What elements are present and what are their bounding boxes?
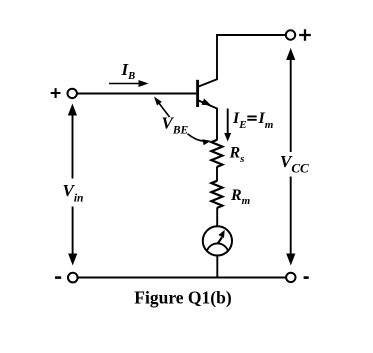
arrow VBE pointer line <box>159 103 170 118</box>
svg-text:Figure Q1(b): Figure Q1(b) <box>134 288 232 308</box>
arrow Vin line lower <box>72 207 74 256</box>
meter M body <box>203 226 232 255</box>
arrow IB line <box>109 83 140 85</box>
wire Rm to meter <box>216 208 218 227</box>
transistor Q1 emitter <box>198 100 217 140</box>
arrowhead IE <box>224 133 231 142</box>
terminal top-left <box>68 89 77 98</box>
arrow IE line <box>227 109 229 135</box>
wire meter to bottom rail <box>216 255 218 277</box>
arrowhead emitter <box>201 99 211 106</box>
plus sign top-right <box>299 29 311 40</box>
arrowhead Vin bottom <box>68 254 77 266</box>
wire Rs to Rm <box>216 167 218 182</box>
equals sign <box>247 116 256 119</box>
wire top rail <box>216 34 286 36</box>
arrow VBE curved pointer <box>188 134 205 141</box>
arrowhead IB <box>139 80 149 87</box>
meter dial arc <box>207 243 228 250</box>
resistor Rs zigzag <box>211 140 222 167</box>
meter needle <box>218 237 223 244</box>
terminal top-right <box>286 30 295 39</box>
arrow Vin line upper <box>72 112 74 179</box>
arrowhead Vcc top <box>286 48 295 60</box>
arrowhead Vcc bottom <box>286 254 295 266</box>
arrowhead VBE curved <box>202 139 210 145</box>
resistor Rm zigzag <box>211 181 222 208</box>
minus sign bottom-left <box>55 276 61 279</box>
transistor Q1 base bar <box>196 80 199 107</box>
arrowhead Vin top <box>68 104 77 116</box>
plus sign top-left <box>51 88 61 98</box>
arrow Vcc line upper <box>290 57 292 152</box>
arrow Vcc line lower <box>290 177 292 256</box>
wire base <box>77 93 196 95</box>
wire bottom rail <box>77 277 286 279</box>
arrowhead VBE pointer <box>154 97 162 106</box>
terminal bottom-left <box>68 273 78 283</box>
minus sign bottom-right <box>304 276 309 279</box>
arrowhead meter needle <box>218 230 224 238</box>
transistor Q1 collector <box>198 35 217 87</box>
terminal bottom-right <box>286 273 295 282</box>
